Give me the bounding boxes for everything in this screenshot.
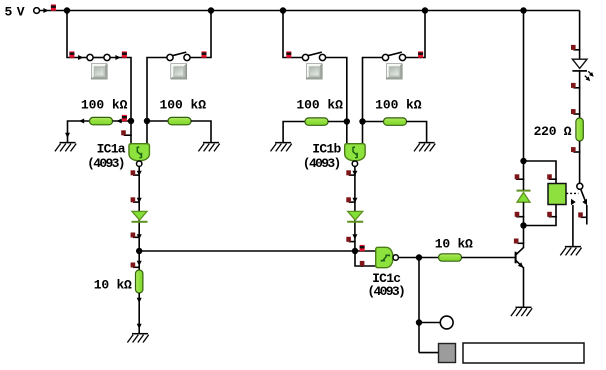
resistor R6 10k <box>439 254 462 261</box>
voltage indicator S1 right (high) <box>122 51 127 57</box>
current arrow left of R1 <box>79 119 84 124</box>
resistor R4 100k <box>384 118 407 125</box>
current arrow right of R1 <box>117 119 122 124</box>
wire R1 to node IN-A <box>113 120 132 122</box>
wire R5 to relay contact <box>579 141 581 184</box>
resistor R5 220 ohm vertical <box>576 118 583 141</box>
resistor R2 100k <box>168 117 191 124</box>
wire junction down to R7 <box>138 251 140 271</box>
current arrow to ground G1 <box>65 133 70 138</box>
voltage indicator R7 top (low) <box>131 263 140 268</box>
voltage indicator R5 bottom (low) <box>571 147 580 152</box>
push button S4 <box>387 64 403 79</box>
current arrow above R7 <box>137 261 142 266</box>
voltage indicator IC1c pin A (high) <box>360 245 365 251</box>
IC1c output bubble <box>393 255 398 260</box>
voltage indicator right throw (low) <box>578 212 587 217</box>
current arrow out of S1 <box>115 55 120 60</box>
wire LED to R5 <box>579 71 581 118</box>
wire node IN-D to R4 <box>363 121 384 123</box>
IC1a output bubble <box>137 161 142 166</box>
wire gate IC1a input A <box>130 121 132 144</box>
voltage indicator S1 left (high) <box>69 51 74 57</box>
LED D4 <box>572 59 595 82</box>
voltage indicator D1 cathode (low) <box>131 233 140 238</box>
voltage indicator D2 cathode (low) <box>346 237 355 242</box>
ground G1 <box>55 143 76 152</box>
resistor R7 10k vertical <box>136 270 143 293</box>
svg-text:220 Ω: 220 Ω <box>534 124 572 139</box>
voltage indicator coil bottom (low) <box>547 212 557 217</box>
ground G5 <box>511 307 532 316</box>
voltage indicator IC1a out (low) <box>131 170 140 175</box>
svg-text:100 kΩ: 100 kΩ <box>160 97 207 112</box>
node relay bottom junction <box>520 222 526 228</box>
wire relay coil bottom <box>524 205 557 226</box>
relay contact lever <box>581 189 586 201</box>
svg-text:IC1a: IC1a <box>97 142 126 157</box>
voltage indicator S2 right (high) <box>202 51 207 57</box>
wire IC1b output down <box>354 166 356 251</box>
ground G4 <box>414 143 435 152</box>
wire relay bottom to collector <box>523 226 525 248</box>
switch S3 (open push switch) <box>302 52 325 61</box>
node IN-A junction <box>128 118 134 124</box>
wire R7 to ground <box>138 293 140 334</box>
node rail junction A <box>64 7 70 13</box>
current arrow above ground G7 <box>137 324 142 329</box>
voltage indicator Q1 collector (low) <box>514 239 524 244</box>
voltage indicator D2 anode (low) <box>346 197 355 202</box>
voltage indicator S3 left (high) <box>286 51 291 57</box>
wire S3 to node IN-C <box>326 58 347 122</box>
ground G6 <box>560 247 581 256</box>
wire D3 vertical <box>523 161 525 190</box>
voltage indicator IC1a pin A (low) <box>121 130 132 135</box>
node IN-B junction <box>144 118 150 124</box>
wire rail corner to LED <box>579 11 581 60</box>
wire IC1a output down <box>138 166 140 251</box>
wire to sounder <box>419 352 439 354</box>
voltage indicator LED cathode (low) <box>571 83 580 88</box>
sounder display (white box) <box>463 343 584 363</box>
wire node IN-B to R2 <box>147 120 168 122</box>
wire ground to R3 <box>283 122 305 143</box>
current arrow below R7 <box>137 298 142 303</box>
svg-text:IC1b: IC1b <box>312 142 341 157</box>
sounder body (gray box) <box>439 344 456 363</box>
wire top 5V rail <box>67 10 580 12</box>
push button S3 <box>307 64 323 79</box>
relay throw contact right <box>582 199 587 205</box>
wire node IN-D up to switch S4 <box>363 58 383 122</box>
diode D3 flyback <box>517 191 531 203</box>
voltage indicator on 5V lead (high) <box>51 4 56 10</box>
node IC1c out junction <box>416 254 422 260</box>
wire R2 to ground G2 <box>191 121 211 143</box>
wire relay coil top <box>524 161 557 184</box>
switch S1 (closed push switch) <box>87 54 110 60</box>
wire IC1c node down to probe <box>418 258 420 353</box>
voltage indicator IC1b out (low) <box>346 170 355 175</box>
resistor R3 100k <box>305 118 328 125</box>
ground G2 <box>198 143 219 152</box>
switch S2 (open push switch) <box>167 52 190 61</box>
current arrow IC1a out 1 <box>137 171 142 176</box>
node probe junction <box>416 319 422 325</box>
voltage indicator D1 anode (low) <box>131 197 140 202</box>
current arrow IC1a out 2 <box>137 198 142 203</box>
wire Q1 emitter to ground <box>523 268 525 308</box>
transistor Q1 NPN <box>516 247 525 269</box>
current arrow into S1 <box>78 55 83 60</box>
node rail junction B <box>208 7 214 13</box>
current arrow IC1b out 2 <box>352 198 357 203</box>
wire S1 to node IN-A <box>110 58 131 122</box>
node IN-C junction <box>344 118 350 124</box>
voltage indicator D3 cathode (low) <box>515 174 525 179</box>
wire right throw stub <box>586 205 588 225</box>
relay throw contact left <box>571 199 576 205</box>
current arrow D2 cathode <box>352 234 357 239</box>
push button S2 <box>171 64 187 79</box>
op IC1a NAND schmitt gate <box>129 144 150 161</box>
wire gate IC1a input B <box>146 121 148 144</box>
diode D2 <box>347 211 363 221</box>
wire S4 to rail <box>406 11 425 58</box>
diode D1 <box>132 211 148 221</box>
node rail junction E <box>520 7 526 13</box>
wire gate IC1b input A <box>346 122 348 145</box>
ground G3 <box>271 143 292 152</box>
node relay top junction <box>520 158 526 164</box>
relay contact pole circle <box>577 183 583 189</box>
current arrow on 5V lead <box>43 8 48 13</box>
wire R6 to transistor base <box>462 257 516 259</box>
wire node to IC1c input A <box>355 250 376 252</box>
wire gate IC1b input B <box>362 122 364 145</box>
terminal 5V supply <box>34 8 40 14</box>
node IN-D junction <box>359 118 365 124</box>
current arrow D1 cathode <box>137 234 142 239</box>
svg-text:(4093): (4093) <box>87 156 126 171</box>
svg-text:5 V: 5 V <box>5 4 25 19</box>
resistor R1 100k <box>90 117 113 124</box>
voltage indicator D3 anode (low) <box>515 212 525 217</box>
wire R3 to node IN-C <box>328 121 347 123</box>
op IC1c NAND schmitt gate <box>376 247 393 267</box>
svg-text:10 kΩ: 10 kΩ <box>435 236 473 251</box>
node rail junction D <box>422 7 428 13</box>
voltage indicator R5 top (low) <box>571 109 580 114</box>
switch S4 (open push switch) <box>382 52 405 61</box>
svg-text:100 kΩ: 100 kΩ <box>296 97 343 112</box>
svg-text:(4093): (4093) <box>303 156 342 171</box>
wire left throw to ground G6 <box>572 205 574 247</box>
voltage indicator node IN-A (high) <box>122 115 127 121</box>
voltage indicator S4 right (high) <box>418 51 423 57</box>
ground G7 <box>127 334 148 343</box>
node D1-R7 junction <box>136 248 142 254</box>
svg-text:10 kΩ: 10 kΩ <box>94 278 132 293</box>
wire node IN-B up to switch S2 <box>147 58 167 122</box>
voltage indicator IC1c pin B (low) <box>360 261 365 267</box>
wire R4 to ground G4 <box>407 122 427 143</box>
terminal probe circle <box>440 316 453 329</box>
IC1b output bubble <box>352 161 357 166</box>
wire junction to probe terminal <box>419 322 440 324</box>
node rail junction C <box>280 7 286 13</box>
voltage indicator LED anode (low) <box>571 45 580 50</box>
wire S2 to rail <box>190 11 211 58</box>
svg-text:100 kΩ: 100 kΩ <box>81 97 128 112</box>
svg-text:100 kΩ: 100 kΩ <box>375 97 422 112</box>
op IC1b NAND schmitt gate <box>345 144 366 161</box>
wire ground to R1 <box>68 121 90 143</box>
wire 5V lead <box>40 10 68 12</box>
wire common node to D2 branch <box>139 250 355 252</box>
dashed link coil to contact <box>566 192 578 194</box>
voltage indicator coil top (low) <box>547 174 557 179</box>
wire rail to switch S1 <box>67 11 87 58</box>
push button S1 <box>92 64 108 79</box>
current arrow IC1b out 1 <box>352 171 357 176</box>
svg-text:(4093): (4093) <box>367 284 406 299</box>
wire rail to switch S3 <box>283 11 302 58</box>
wire IC1c output to R6 <box>398 257 438 259</box>
node D2 junction <box>352 248 358 254</box>
wire node to IC1c input B <box>355 251 376 266</box>
wire rail to relay branch <box>523 11 525 162</box>
relay coil RL1 <box>548 184 566 205</box>
